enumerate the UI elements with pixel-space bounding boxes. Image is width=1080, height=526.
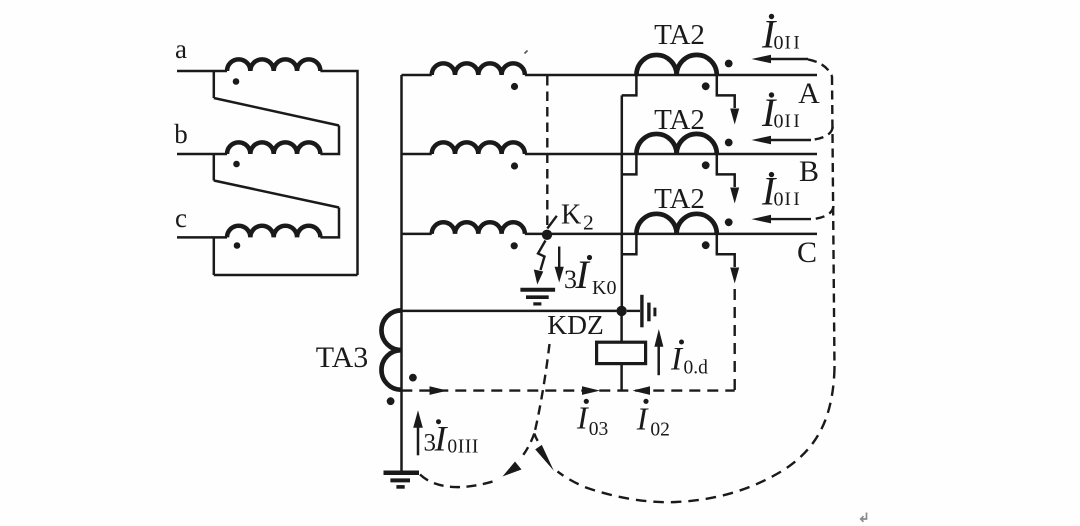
wire phase a stub — [177, 70, 227, 73]
wire middle neutral bus — [400, 75, 403, 471]
svg-text:TA2: TA2 — [654, 183, 705, 215]
wire dashed return path bottom-right curve — [558, 368, 835, 502]
label I0II current (phase A) — [761, 12, 802, 57]
svg-text:2: 2 — [583, 211, 594, 235]
polarity dot TA2-A upper — [725, 60, 733, 68]
label K2 — [561, 200, 594, 235]
arrow I0II into phase C — [768, 218, 811, 220]
wire phase A line — [525, 74, 817, 77]
current transformer TA2 (phase A) — [636, 55, 716, 75]
svg-text:0III: 0III — [447, 437, 479, 458]
polarity dot winding II-B — [511, 162, 518, 169]
svg-text:K0: K0 — [592, 277, 616, 299]
dashed link from return path to I0II arrow B — [811, 127, 833, 140]
wire winding c left drop — [213, 237, 216, 275]
svg-text:0: 0 — [774, 32, 784, 54]
speck artifact — [525, 51, 528, 54]
faint return mark artifact — [861, 513, 867, 522]
wire dashed split left branch to ground path — [520, 434, 535, 460]
wire dashed from relay down to split — [534, 344, 549, 434]
svg-text:b: b — [174, 119, 188, 149]
polarity dot winding c — [234, 242, 241, 249]
svg-text:03: 03 — [589, 419, 609, 440]
label 3IK0 — [564, 252, 616, 299]
svg-text:II: II — [785, 111, 803, 132]
switch tick K2 — [547, 216, 557, 229]
svg-text:B: B — [799, 155, 819, 188]
current transformer TA2 (phase C) — [636, 214, 716, 234]
ground at relay circuit (right-facing) — [627, 310, 640, 312]
arrow TA2-C secondary current down — [730, 268, 739, 284]
svg-text:TA2: TA2 — [654, 19, 705, 51]
wire dashed I02 drop from TA2-C — [734, 289, 736, 391]
polarity dot TA2-C lower — [702, 241, 710, 249]
arrow into ground return (left) — [503, 462, 522, 477]
ground at neutral bottom — [384, 470, 420, 475]
wire TA2-C secondary right step — [717, 234, 735, 267]
winding II phase C — [402, 233, 432, 236]
label I03 — [576, 399, 608, 441]
wire winding a right and right bus — [320, 71, 357, 275]
label 3I0III — [424, 418, 480, 458]
wire winding c right to diagonal — [320, 208, 339, 238]
wire TA2-B secondary right step — [717, 154, 735, 187]
arrow 3IK0 fault current down — [558, 247, 560, 268]
wire winding a left drop — [213, 71, 216, 98]
svg-text:02: 02 — [650, 420, 670, 441]
svg-text:I: I — [576, 400, 589, 436]
wire TA3 secondary to KDZ — [401, 310, 616, 313]
winding II phase B — [402, 153, 432, 156]
svg-text:0.d: 0.d — [684, 357, 709, 378]
polarity dot TA3 upper — [409, 374, 417, 382]
winding c of zigzag transformer — [227, 226, 320, 238]
polarity dot TA2-B upper — [725, 139, 733, 147]
current transformer TA2 (phase B) — [636, 134, 716, 154]
svg-text:II: II — [785, 189, 803, 210]
arrow 3I0III up — [417, 428, 420, 456]
arrow I03 direction near relay — [582, 386, 600, 395]
polarity dot TA2-B lower — [702, 161, 710, 169]
svg-text:0: 0 — [774, 110, 784, 132]
wire zigzag bottom — [214, 274, 358, 277]
svg-text:I: I — [434, 418, 449, 458]
wire dashed fault feeder at K2 — [546, 76, 548, 226]
arrow I0.d up — [657, 347, 660, 376]
wire TA2-B secondary left step — [622, 154, 637, 174]
wire dashed ground return from TA3 ground — [420, 475, 498, 488]
polarity dot winding II-A — [511, 83, 518, 90]
wire zigzag diagonal a-b — [214, 98, 339, 126]
dashed link from return path to I0II arrow A — [808, 59, 832, 76]
svg-text:KDZ: KDZ — [547, 309, 604, 340]
arrow I02 direction near relay — [633, 386, 651, 395]
wire phase C line — [525, 233, 817, 236]
ground at fault K2 — [520, 288, 555, 292]
label I0.d — [670, 340, 708, 379]
polarity dot winding a — [233, 78, 240, 85]
wire TA2-A secondary right step — [717, 75, 735, 108]
svg-text:I: I — [636, 401, 649, 437]
svg-text:K: K — [561, 200, 581, 231]
wire dashed return path right vertical — [832, 76, 835, 368]
wire dashed secondary sum line I03/I02 — [401, 389, 734, 391]
relay KDZ — [597, 342, 646, 363]
winding II phase A — [402, 74, 432, 77]
wire winding b left drop — [213, 154, 216, 181]
svg-text:a: a — [175, 34, 187, 64]
wire junction to relay — [620, 311, 623, 342]
polarity dot TA2-C upper — [725, 218, 733, 226]
label I02 — [636, 399, 670, 441]
wire relay to summing node — [620, 364, 623, 391]
wire phase b stub — [177, 153, 227, 156]
polarity dot winding II-C — [511, 242, 518, 249]
wire winding b right to diagonal — [320, 126, 339, 155]
svg-text:TA2: TA2 — [654, 104, 705, 136]
svg-text:c: c — [175, 203, 187, 233]
polarity dot TA3 lower — [387, 397, 395, 405]
svg-text:II: II — [785, 32, 803, 53]
svg-text:C: C — [797, 236, 817, 269]
arrow I0II into phase A — [768, 58, 808, 60]
winding a of zigzag transformer — [227, 59, 320, 71]
svg-text:0: 0 — [774, 189, 784, 211]
wire TA2-C secondary left step — [622, 234, 637, 254]
arrow into phase return (right) — [534, 434, 540, 445]
winding b of zigzag transformer — [227, 142, 320, 154]
label I0II current (phase C) — [761, 168, 802, 213]
arrow TA2-A secondary current down — [730, 109, 739, 125]
svg-text:A: A — [798, 77, 820, 110]
svg-text:I: I — [670, 342, 684, 378]
label I0II current (phase B) — [761, 90, 802, 135]
node K2 junction — [542, 230, 552, 240]
node KDZ top junction — [616, 306, 626, 316]
dashed link from return path to I0II arrow C — [811, 206, 834, 219]
polarity dot winding b — [233, 161, 240, 168]
polarity dot TA2-A lower — [702, 82, 710, 90]
arrow TA2-B secondary current down — [730, 188, 739, 204]
wire TA2 secondary left bus — [621, 95, 624, 311]
arrow I03 direction near TA3 — [430, 386, 448, 395]
wire TA2-A secondary left step — [622, 75, 637, 95]
lightning fault arrow at K2 — [538, 241, 546, 271]
wire zigzag diagonal b-c — [214, 181, 339, 208]
svg-text:TA3: TA3 — [316, 341, 369, 374]
wire phase B line — [525, 153, 817, 156]
current transformer TA3 on neutral — [381, 310, 401, 389]
wire phase c stub — [177, 236, 227, 239]
arrow I0II into phase B — [768, 139, 811, 141]
